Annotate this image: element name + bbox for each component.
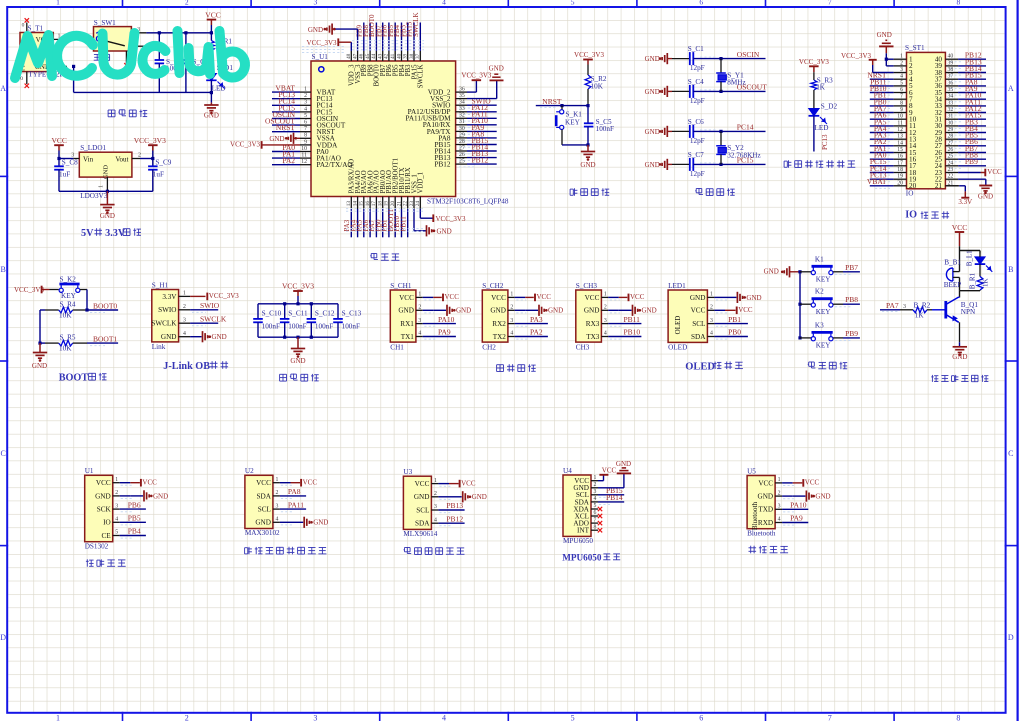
- svg-text:9: 9: [900, 107, 903, 113]
- svg-text:GND: GND: [952, 353, 967, 361]
- MCU U1 STM32F103C8T6 body: [311, 53, 509, 206]
- svg-text:1uF: 1uF: [59, 170, 70, 178]
- svg-text:16: 16: [365, 201, 371, 207]
- capacitor S_C10 100nF: [253, 304, 281, 337]
- svg-text:C: C: [1008, 449, 1013, 458]
- svg-text:Vout: Vout: [115, 155, 128, 163]
- ST1 left pin 15: [870, 144, 917, 157]
- U1 bottom pin 16 PA6/AO: [362, 170, 375, 237]
- U1 left pin 7 NRST: [272, 123, 335, 136]
- section label main chip: [371, 253, 377, 255]
- U2 pin 3 SCL: [258, 503, 280, 513]
- ground GND at U1 bottom VSS_1: [414, 209, 452, 236]
- U1 top pin 44 BOOT0: [368, 14, 381, 86]
- section label filter circuit: [280, 373, 287, 375]
- U1 left pin 5 OSCIN: [272, 110, 339, 123]
- section label IO expansion port: [905, 210, 949, 221]
- svg-text:GND: GND: [204, 112, 219, 120]
- LED S_D1: [206, 64, 233, 93]
- no-ERC at U4 pin 6: [598, 514, 602, 518]
- svg-text:SWIO: SWIO: [158, 306, 176, 314]
- svg-text:VCC: VCC: [738, 306, 753, 314]
- svg-text:DS1302: DS1302: [85, 542, 109, 550]
- svg-text:GND: GND: [100, 212, 115, 220]
- svg-text:S_U1: S_U1: [312, 53, 329, 61]
- power port VCC at S_CH1: [423, 293, 460, 301]
- svg-text:4: 4: [434, 517, 437, 523]
- section label bluetooth module: [750, 546, 752, 554]
- svg-text:GND: GND: [645, 128, 660, 136]
- svg-text:GND: GND: [398, 307, 414, 315]
- svg-text:PB14: PB14: [606, 493, 623, 502]
- svg-text:GND: GND: [645, 55, 660, 63]
- svg-text:2: 2: [778, 490, 781, 496]
- svg-text:S_C8: S_C8: [62, 159, 78, 167]
- svg-text:BOOT0: BOOT0: [93, 302, 117, 311]
- svg-text:VCC: VCC: [585, 294, 600, 302]
- net label PB4 wire at U1: [120, 527, 146, 538]
- ground GND at S_CH3: [608, 305, 656, 316]
- section label clock module: [86, 559, 88, 566]
- alarm bottom node: [960, 290, 981, 298]
- module U5 Bluetooth body: [747, 467, 776, 537]
- S_CH3 pin 2 GND: [584, 305, 608, 315]
- svg-text:10: 10: [897, 114, 903, 120]
- svg-text:17: 17: [371, 201, 377, 207]
- pin 1 VCC of S_T1: [53, 34, 65, 40]
- pin 3 of S_SW1: [131, 27, 146, 33]
- svg-text:SDA: SDA: [257, 492, 272, 500]
- svg-text:PB5: PB5: [128, 514, 141, 523]
- svg-text:12pF: 12pF: [690, 170, 705, 178]
- U3 pin 3 SCL: [416, 504, 438, 514]
- U1 bottom pin 22 PB11/RX: [399, 167, 412, 237]
- svg-text:2: 2: [900, 60, 903, 66]
- svg-text:31: 31: [459, 119, 465, 125]
- svg-text:S_R5: S_R5: [60, 334, 76, 342]
- svg-text:27: 27: [459, 145, 465, 151]
- U4 pin 3 SCL: [576, 489, 598, 499]
- svg-text:3: 3: [275, 503, 278, 509]
- U1 top pin 39 PB3: [399, 23, 412, 77]
- LDO ground pin wire: [99, 177, 108, 191]
- ST1 left pin 12: [870, 124, 917, 137]
- U1 top pin 43 PB7: [374, 23, 387, 77]
- svg-text:4: 4: [275, 517, 278, 523]
- U1 bottom pin 18 PB0/AO: [374, 170, 387, 237]
- svg-text:10K: 10K: [59, 311, 72, 319]
- ground GND at S_CH2: [515, 305, 563, 316]
- ST1 right pin 25: [935, 151, 986, 164]
- power port VCC for LDO: [51, 136, 66, 160]
- U4 pin 1 VCC: [574, 475, 598, 485]
- U1 left pin 8 VSSA: [300, 133, 336, 143]
- ST1 right pin 37: [935, 71, 986, 84]
- svg-text:S_C4: S_C4: [688, 78, 704, 86]
- svg-text:7: 7: [304, 126, 307, 132]
- svg-text:SWCLK: SWCLK: [412, 13, 420, 38]
- svg-text:7: 7: [828, 0, 832, 7]
- svg-text:15: 15: [359, 201, 365, 207]
- capacitor S_C3 10uF: [181, 33, 209, 93]
- connector S_H1 J-Link body: [152, 281, 179, 351]
- svg-text:D: D: [1008, 633, 1014, 642]
- ST1 left pin 19: [870, 171, 917, 184]
- svg-text:4: 4: [900, 74, 903, 80]
- svg-text:SWCLK: SWCLK: [200, 314, 227, 323]
- resistor S_R3 1K: [811, 77, 833, 109]
- module U3 MLX90614 body: [403, 468, 437, 538]
- ST1 left pin 1: [894, 54, 913, 64]
- left bus of boot resistors: [38, 310, 41, 345]
- svg-text:31: 31: [948, 114, 954, 120]
- svg-text:3: 3: [604, 318, 607, 324]
- ST1 right pin 31: [935, 111, 986, 124]
- net label PA10 wire at U5: [782, 501, 808, 512]
- key bus wire: [798, 270, 801, 339]
- svg-text:2: 2: [183, 304, 186, 310]
- svg-text:J-Link OB: J-Link OB: [163, 361, 210, 372]
- section label MPU6050 module: [562, 552, 620, 562]
- capacitor S_C6 12pF: [672, 118, 705, 145]
- svg-text:SDA: SDA: [691, 333, 706, 341]
- svg-text:6: 6: [304, 120, 307, 126]
- S_CH2 pin 1 VCC: [491, 292, 515, 302]
- svg-text:VCC_3V3: VCC_3V3: [230, 140, 260, 148]
- U1 top pin 46 PB9: [356, 23, 369, 77]
- svg-text:1K: 1K: [982, 278, 990, 287]
- U1 left pin 11 PA1/AO: [272, 150, 341, 163]
- wire LED to ground rail: [210, 80, 213, 102]
- ground GND for keys: [764, 266, 800, 277]
- power port VCC_3V3 at LDO output: [134, 136, 166, 159]
- power port VCC at U1: [120, 479, 157, 487]
- ground GND at LED1: [714, 292, 761, 303]
- U1 bottom pin 17 PA7/AO: [368, 170, 381, 237]
- H1 pin 3 SWCLK: [151, 317, 190, 327]
- net label PA8 wire at U2: [280, 487, 306, 498]
- svg-text:10: 10: [301, 146, 307, 152]
- U1 right pin 34 SWIO: [432, 97, 497, 110]
- svg-text:GND: GND: [490, 307, 506, 315]
- LED1 pin 4 SDA: [691, 331, 714, 341]
- ground rail of power circuit: [72, 65, 211, 93]
- svg-text:8MHz: 8MHz: [727, 79, 745, 87]
- S_CH3 pin 4 TX3: [586, 331, 608, 341]
- section label serial port circuit: [497, 364, 504, 366]
- svg-text:1: 1: [56, 714, 60, 721]
- U1 pin 3 SCK: [97, 503, 120, 513]
- net label BOOT0 wire: [85, 302, 118, 313]
- svg-text:STM32F103C8T6_LQFP48: STM32F103C8T6_LQFP48: [427, 198, 509, 206]
- svg-text:34: 34: [459, 100, 465, 106]
- svg-text:47: 47: [352, 53, 358, 59]
- U5 pin 3 TXD: [758, 504, 782, 514]
- svg-text:12pF: 12pF: [690, 97, 705, 105]
- power port VCC_3V3 at H1 pin1: [190, 292, 239, 300]
- svg-text:MLX90614: MLX90614: [403, 530, 437, 538]
- resistor B_R2 1K at base: [880, 301, 946, 319]
- net label PA11 wire at U2: [280, 500, 306, 511]
- svg-text:100nF: 100nF: [262, 322, 280, 330]
- svg-text:39: 39: [403, 53, 409, 59]
- svg-text:12: 12: [301, 159, 307, 165]
- power port VCC_3V3 reset: [574, 51, 604, 75]
- svg-text:RX1: RX1: [400, 320, 414, 328]
- svg-text:S_CH3: S_CH3: [576, 282, 598, 290]
- svg-text:1: 1: [710, 292, 713, 298]
- svg-text:SWCLK: SWCLK: [418, 64, 425, 88]
- svg-text:35: 35: [948, 87, 954, 93]
- svg-text:SCL: SCL: [692, 320, 705, 328]
- svg-text:10K: 10K: [591, 82, 604, 90]
- ST1 right pin 34: [935, 91, 986, 104]
- wire PB9 from K3: [835, 329, 860, 341]
- svg-text:4: 4: [510, 331, 513, 337]
- svg-text:3: 3: [304, 100, 307, 106]
- svg-text:S_SW1: S_SW1: [94, 19, 116, 27]
- H1 pin 2 SWIO: [158, 304, 190, 314]
- ground GND at U2: [280, 517, 328, 528]
- no-ERC at U4 pin 5: [598, 507, 602, 511]
- U1 top pin 37 SWCLK: [412, 13, 425, 89]
- net label PB13 wire at U3: [438, 501, 464, 512]
- LED S_D2: [809, 102, 838, 132]
- section label 5V to 3.3V circuit: [81, 228, 141, 239]
- svg-text:4: 4: [304, 106, 307, 112]
- U1 right pin 33 PA12/USB/DP: [408, 103, 497, 116]
- connector LED1 OLED body: [668, 282, 707, 352]
- ground GND at U1 top VSS_3: [308, 24, 358, 51]
- svg-text:3.3V: 3.3V: [162, 293, 177, 301]
- svg-text:15: 15: [897, 147, 903, 153]
- svg-text:VCC_3V3: VCC_3V3: [14, 286, 44, 294]
- svg-text:B_L1: B_L1: [965, 250, 973, 266]
- svg-text:5: 5: [571, 0, 575, 7]
- svg-text:S_C6: S_C6: [688, 118, 704, 126]
- svg-text:5V: 5V: [81, 228, 94, 239]
- ground GND at U1 VSS_2 pin 35: [467, 65, 504, 99]
- svg-text:VCC: VCC: [303, 479, 318, 487]
- pin 1 marker dot: [319, 67, 324, 72]
- svg-text:4: 4: [442, 0, 446, 7]
- net label PA9 wire at U5: [782, 514, 808, 525]
- net label PB12 wire at U3: [438, 514, 464, 525]
- svg-text:1: 1: [604, 292, 607, 298]
- capacitor S_C5 100nF: [584, 106, 614, 145]
- svg-text:3: 3: [900, 67, 903, 73]
- push button K1 KEY: [800, 255, 843, 283]
- selection dash band below chip: [346, 209, 425, 232]
- capacitor S_C9 1uF: [148, 158, 172, 191]
- svg-text:PB0: PB0: [728, 328, 741, 337]
- svg-text:10K: 10K: [59, 344, 72, 352]
- ground GND at U1: [120, 490, 168, 501]
- svg-text:U1: U1: [85, 467, 94, 475]
- U1 right pin 32 PA11/USB/DM: [405, 110, 496, 123]
- svg-text:Link: Link: [152, 343, 166, 351]
- ground rail of LDO: [59, 190, 153, 193]
- svg-text:2: 2: [604, 305, 607, 311]
- svg-text:IO: IO: [905, 210, 917, 221]
- no-ERC marker top of S_T1: [22, 18, 29, 32]
- svg-text:3: 3: [314, 0, 318, 7]
- svg-text:4: 4: [778, 517, 781, 523]
- svg-text:3: 3: [183, 317, 186, 323]
- svg-text:9: 9: [304, 139, 307, 145]
- svg-text:S_CH2: S_CH2: [482, 282, 504, 290]
- net label PA10 wire at S_CH1: [423, 315, 456, 326]
- ST1 right pin 35: [935, 84, 986, 97]
- svg-text:BEEP: BEEP: [944, 281, 962, 289]
- svg-text:28: 28: [948, 134, 954, 140]
- svg-text:VCC_3V3: VCC_3V3: [574, 51, 604, 59]
- capacitor S_C11 100nF: [280, 304, 308, 337]
- net label PA3 wire at S_CH2: [515, 315, 548, 326]
- ST1 right pin 29: [935, 124, 986, 137]
- pin 2 GND of S_T1: [53, 60, 67, 66]
- capacitor S_C2 100uF: [155, 33, 185, 93]
- svg-text:2: 2: [138, 153, 141, 159]
- svg-text:KEY: KEY: [816, 308, 832, 316]
- svg-text:2: 2: [418, 305, 421, 311]
- svg-text:PB1: PB1: [728, 315, 741, 324]
- svg-text:Vin: Vin: [83, 155, 94, 163]
- net label BOOT1 wire: [87, 335, 118, 346]
- svg-text:32: 32: [459, 113, 465, 119]
- svg-text:RX3: RX3: [586, 320, 600, 328]
- svg-text:GND: GND: [580, 161, 595, 169]
- svg-text:100nF: 100nF: [315, 322, 333, 330]
- ground GND at H1 pin4: [190, 331, 227, 342]
- U1 left pin 3 PC14: [272, 97, 333, 110]
- svg-text:2: 2: [275, 490, 278, 496]
- ST1 right pin 39: [935, 57, 986, 70]
- svg-text:GND: GND: [32, 362, 47, 370]
- H1 pin 4 GND: [161, 331, 190, 341]
- alarm top node wires: [960, 251, 981, 269]
- svg-text:0: 0: [20, 76, 23, 82]
- net label PB0 wire at LED1: [714, 328, 748, 339]
- svg-text:NRST: NRST: [542, 97, 562, 106]
- svg-text:34: 34: [948, 94, 954, 100]
- svg-text:CH3: CH3: [576, 343, 590, 351]
- net label PB11 wire at S_CH3: [608, 315, 641, 326]
- power port VCC at U4 pin 1: [598, 467, 617, 481]
- ST1 left pin 2: [894, 60, 913, 70]
- pin 2 Vout wire: [132, 153, 155, 161]
- net label PA2 wire at S_CH2: [515, 328, 548, 339]
- svg-text:PA8: PA8: [288, 487, 301, 496]
- svg-text:VCC: VCC: [415, 480, 430, 488]
- section label reset circuit: [570, 188, 573, 190]
- power port VCC_3V3 at U1 VDD_2 pin 36: [461, 72, 491, 93]
- svg-text:CH1: CH1: [390, 343, 404, 351]
- svg-text:S_C12: S_C12: [315, 309, 335, 317]
- svg-text:6: 6: [699, 714, 703, 721]
- svg-text:28: 28: [459, 139, 465, 145]
- net label PB14 wire at U4: [598, 493, 624, 504]
- svg-text:CE: CE: [102, 532, 112, 540]
- svg-text:GND: GND: [548, 307, 563, 315]
- svg-text:27: 27: [948, 140, 954, 146]
- svg-text:21: 21: [935, 182, 943, 190]
- U1 right pin 36 VDD_2: [428, 87, 467, 97]
- ground GND reset: [580, 145, 595, 169]
- svg-text:3: 3: [313, 714, 317, 721]
- svg-text:19: 19: [897, 174, 903, 180]
- svg-text:8: 8: [900, 100, 903, 106]
- svg-text:38: 38: [409, 53, 415, 59]
- svg-text:40: 40: [396, 53, 402, 59]
- net label PB15 wire at U4: [598, 486, 624, 497]
- svg-text:VCC: VCC: [630, 293, 645, 301]
- svg-text:3: 3: [903, 304, 906, 310]
- svg-text:GND: GND: [255, 519, 271, 527]
- svg-text:A: A: [1008, 84, 1014, 93]
- svg-text:29: 29: [459, 132, 465, 138]
- net label PB5 wire at U1: [120, 514, 146, 525]
- svg-text:6: 6: [699, 0, 703, 7]
- ground GND at ST1 pin 22: [958, 179, 993, 200]
- ST1 right pin 23: [935, 167, 958, 177]
- S_CH3 pin 3 RX3: [586, 318, 608, 328]
- crystal S_Y1 8MHz: [716, 59, 745, 92]
- svg-text:BOOT1: BOOT1: [93, 335, 117, 344]
- svg-text:13: 13: [346, 201, 352, 207]
- U1 left pin 1 VBAT: [272, 84, 336, 97]
- svg-text:38: 38: [948, 67, 954, 73]
- push button K3 KEY: [800, 321, 843, 349]
- section label crystal circuit: [696, 188, 702, 190]
- svg-text:PB7: PB7: [845, 263, 858, 272]
- svg-text:12: 12: [897, 127, 903, 133]
- svg-text:VCC_3V3: VCC_3V3: [282, 282, 314, 291]
- svg-text:VCC_3V3: VCC_3V3: [436, 215, 466, 223]
- S_CH2 pin 2 GND: [490, 305, 514, 315]
- ground GND at U1 VSSA pin 8: [269, 133, 300, 144]
- svg-text:24: 24: [415, 201, 421, 207]
- svg-text:GND: GND: [645, 88, 660, 96]
- U5 pin 1 VCC: [758, 477, 782, 487]
- svg-text:14: 14: [352, 201, 358, 207]
- svg-text:VCC: VCC: [256, 479, 271, 487]
- filter top rail: [258, 302, 338, 305]
- U1 bottom pin 15 PA5/AO: [356, 170, 369, 237]
- svg-text:46: 46: [359, 53, 365, 59]
- svg-text:5: 5: [115, 530, 118, 536]
- svg-text:2: 2: [510, 305, 513, 311]
- no-ERC at U4 pin 8: [598, 528, 602, 532]
- svg-text:GND: GND: [584, 307, 600, 315]
- wire OSCIN: [693, 50, 765, 60]
- capacitor S_C4 12pF: [672, 78, 705, 105]
- U1 right pin 31 PA10/RX: [423, 116, 497, 129]
- svg-text:MPU6050: MPU6050: [563, 537, 593, 545]
- ground GND at U3: [438, 491, 486, 502]
- svg-text:SCL: SCL: [258, 506, 271, 514]
- svg-text:S_K2: S_K2: [60, 276, 77, 284]
- ST1 right pin 33: [935, 97, 986, 110]
- capacitor S_C13 100nF: [333, 304, 361, 337]
- svg-text:33: 33: [948, 100, 954, 106]
- section label sound light alarm: [931, 375, 933, 382]
- svg-text:U4: U4: [563, 467, 572, 475]
- svg-text:GND: GND: [269, 135, 284, 143]
- crystal S_Y2 32.768KHz: [716, 131, 760, 164]
- svg-text:PB6: PB6: [128, 500, 141, 509]
- ST1 left pin 11: [870, 117, 917, 130]
